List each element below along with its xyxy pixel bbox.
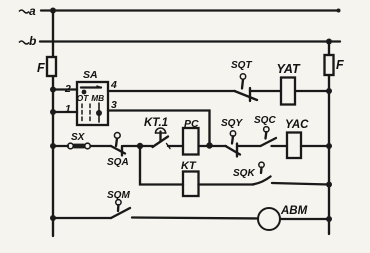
wire SQK to right bus <box>272 183 329 185</box>
node right bus / ABM <box>326 216 332 222</box>
time contact KT.1 <box>140 128 170 149</box>
svg-text:a: a <box>29 4 36 18</box>
limit switch SQC (NO contact with actuator) <box>261 127 277 146</box>
wire KT.1 to PC <box>168 145 183 147</box>
svg-text:SQA: SQA <box>107 157 129 168</box>
wire left bus <box>52 11 54 237</box>
svg-text:b: b <box>29 34 36 48</box>
svg-text:4: 4 <box>110 79 117 91</box>
svg-text:KT: KT <box>181 160 197 172</box>
node right bus / SQK <box>326 182 332 188</box>
label ~b <box>19 41 29 44</box>
wire node to SQY <box>211 145 226 147</box>
coil YAC <box>287 133 301 159</box>
node left bus / SA:1 <box>50 109 56 115</box>
wire ABM to right bus <box>280 218 329 220</box>
svg-text:1: 1 <box>65 103 71 115</box>
coil KT <box>183 172 199 197</box>
switch block SA <box>77 82 108 125</box>
wire line ~a <box>41 9 339 11</box>
wire YAT to right bus <box>295 90 329 92</box>
node A (junction ~a / left bus) <box>50 8 56 14</box>
svg-text:МВ: МВ <box>91 93 104 103</box>
wire bus to SA:2 <box>53 88 77 90</box>
wire SQC to YAC <box>272 145 288 147</box>
wire bus to SQM <box>53 217 111 219</box>
wire SQA to node <box>123 145 140 147</box>
svg-text:3: 3 <box>111 99 117 111</box>
svg-text:SQT: SQT <box>231 60 252 71</box>
svg-text:SQC: SQC <box>254 115 276 126</box>
node B (junction ~b / right bus) <box>326 39 332 45</box>
node main rung / KT branch <box>137 143 143 149</box>
node left bus / main rung <box>50 143 56 149</box>
wire YAC to right bus <box>301 145 329 147</box>
svg-text:PC: PC <box>184 118 199 130</box>
svg-text:SQK: SQK <box>233 168 255 179</box>
coil YAT <box>281 78 295 105</box>
fuse F1 (left) <box>47 57 56 76</box>
svg-text:SX: SX <box>71 132 86 143</box>
wire SA:4 to SQT <box>108 90 235 92</box>
limit switch SQA (NC contact with actuator) <box>111 133 125 156</box>
switch SQM (NO contact with actuator) <box>111 200 130 218</box>
fuse F2 (right) <box>325 55 334 75</box>
node right bus / YAC <box>326 143 332 149</box>
svg-text:2: 2 <box>64 83 71 95</box>
node left bus / SA:2 <box>50 87 56 93</box>
wire PC to node <box>199 145 212 147</box>
connector SX <box>68 143 91 149</box>
svg-text:SQY: SQY <box>221 118 243 129</box>
wire SX to SQA <box>91 145 112 147</box>
coil PC <box>183 128 199 155</box>
svg-text:ABM: ABM <box>280 205 308 217</box>
svg-text:YAC: YAC <box>285 119 309 131</box>
svg-text:F: F <box>37 61 45 75</box>
svg-text:SQM: SQM <box>107 190 130 201</box>
node left bus / bottom rung <box>50 215 56 221</box>
wire SA:3 to PC junction <box>108 111 210 146</box>
wire SQM to ABM <box>132 218 258 219</box>
node right bus / YAT <box>326 88 332 94</box>
svg-text:SA: SA <box>83 69 98 81</box>
wire SQY to SQC <box>238 145 260 147</box>
node PC / SA:3 branch <box>206 142 212 148</box>
motor ABM <box>258 208 280 230</box>
label ~a <box>19 10 29 13</box>
wire KT to SQK <box>199 183 254 185</box>
wire bus to SX <box>53 145 68 147</box>
limit switch SQT (NC contact with actuator) <box>235 74 258 101</box>
limit switch SQK (NO contact with actuator) <box>253 162 271 184</box>
limit switch SQY (NC contact with actuator) <box>226 131 241 157</box>
wire line ~b <box>40 40 340 42</box>
wire bus to SA:1 <box>53 111 77 113</box>
svg-text:KT.1: KT.1 <box>144 117 168 129</box>
wire right bus <box>328 42 330 235</box>
wire node to KT coil <box>140 146 183 185</box>
svg-text:YAT: YAT <box>277 62 302 76</box>
svg-text:F: F <box>336 58 344 72</box>
wire SQT to YAT <box>250 90 281 92</box>
svg-text:ОТ: ОТ <box>77 93 89 103</box>
